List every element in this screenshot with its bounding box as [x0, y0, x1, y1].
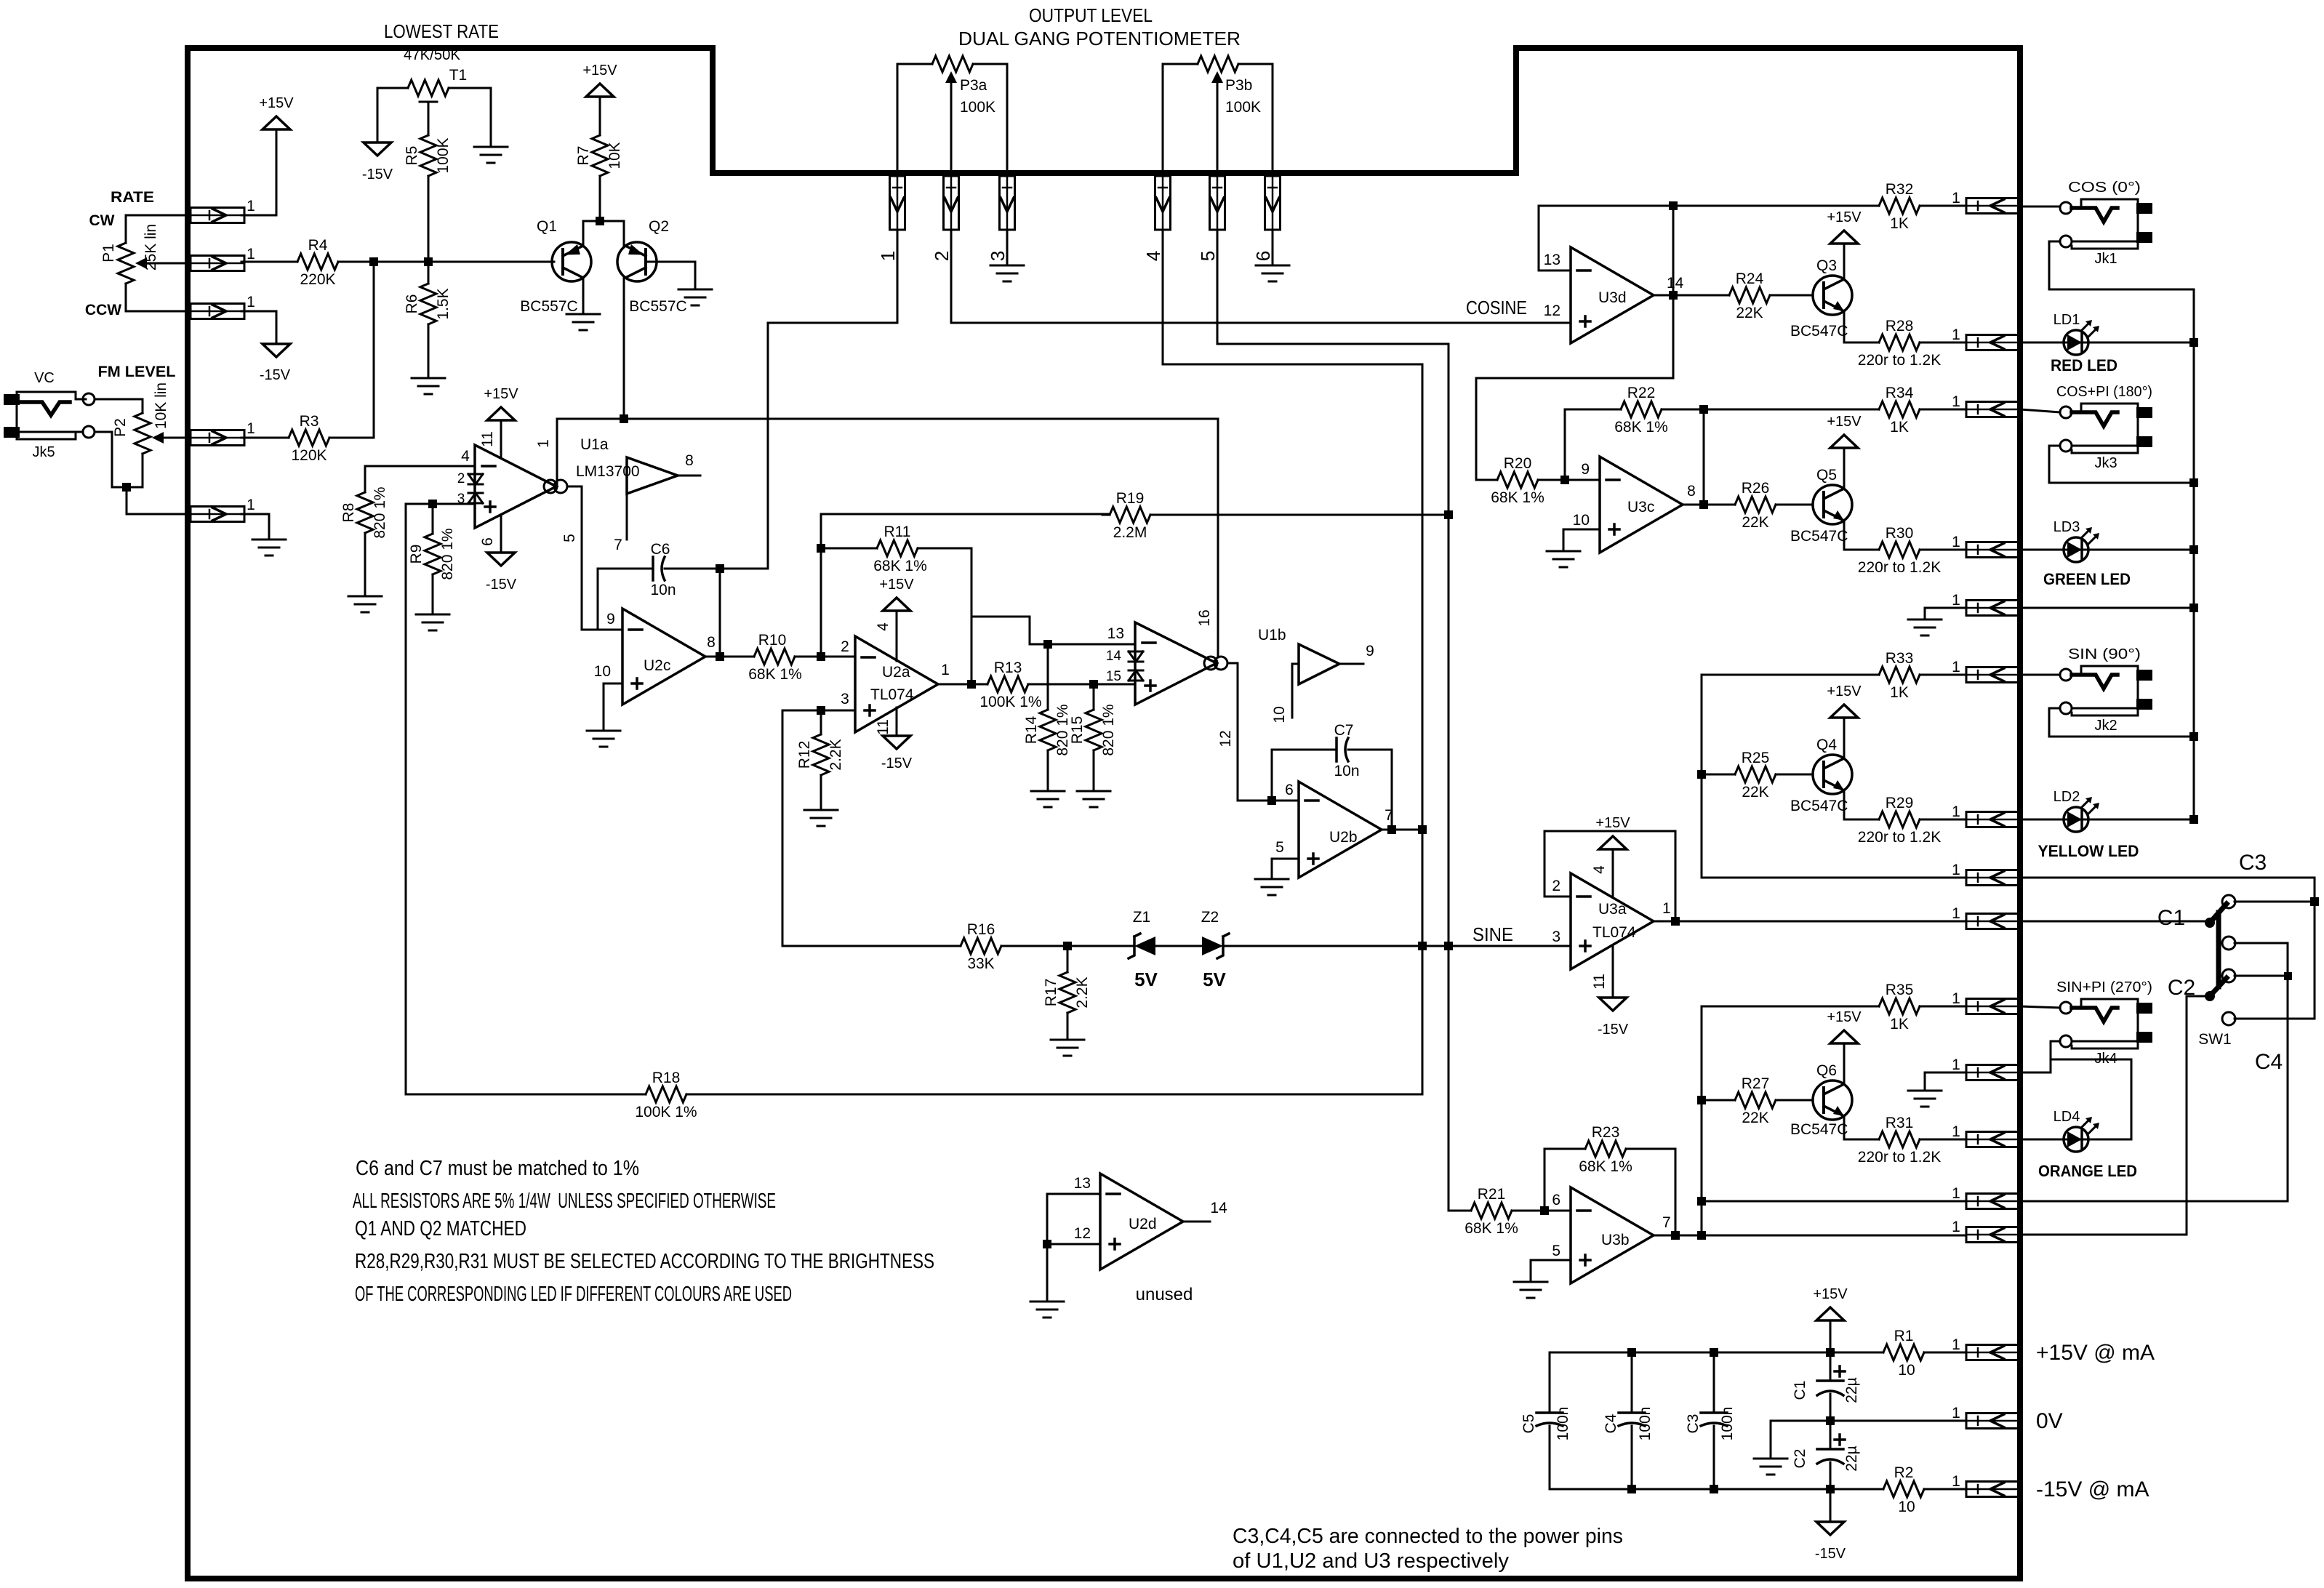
wire U1a pin3 to R18 (long vertical): [405, 504, 407, 1094]
svg-text:CW: CW: [89, 212, 115, 229]
connector (panel ground): [1966, 601, 2020, 616]
svg-text:SIN+PI (270°): SIN+PI (270°): [2056, 979, 2152, 995]
svg-text:68K 1%: 68K 1%: [1614, 419, 1668, 436]
resistor R21 68K 1%: [1464, 1203, 1519, 1219]
U2c output pin 8: [705, 656, 754, 658]
svg-text:2.2K: 2.2K: [1074, 977, 1091, 1008]
svg-text:LD4: LD4: [2053, 1109, 2080, 1125]
U1b buffer pins 9,10: [1299, 644, 1339, 684]
svg-text:1: 1: [247, 246, 255, 262]
switch SW1: [2222, 895, 2235, 908]
power +15V (rail): [1816, 1307, 1844, 1320]
svg-text:Q5: Q5: [1816, 467, 1837, 484]
capacitor C3 100n: [1701, 1411, 1727, 1414]
svg-text:COS+PI (180°): COS+PI (180°): [2056, 384, 2152, 400]
connector pin 1 (RATE CCW): [191, 304, 244, 319]
U2c pin 10 input: [604, 683, 622, 685]
trimmer T1: [401, 80, 456, 96]
svg-text:R12: R12: [796, 741, 813, 769]
wire C6 right to U2c output: [719, 569, 721, 657]
svg-text:6: 6: [1285, 782, 1294, 798]
svg-text:BC547C: BC547C: [1790, 323, 1848, 340]
svg-text:820 1%: 820 1%: [372, 486, 388, 538]
svg-text:U2a: U2a: [882, 664, 910, 681]
power -15V (T1): [364, 143, 391, 156]
svg-text:3: 3: [987, 251, 1009, 261]
svg-text:1: 1: [941, 662, 950, 678]
wire Jk3 sleeve to bus: [2049, 446, 2194, 483]
svg-text:R19: R19: [1116, 490, 1145, 507]
wire R3 to R4 node: [373, 262, 375, 438]
wire Jk1 sleeve to bus: [2049, 241, 2194, 289]
wire Q6 collector to +15V: [1843, 1043, 1846, 1084]
svg-text:P2: P2: [112, 418, 129, 437]
svg-text:5V: 5V: [1134, 969, 1158, 990]
svg-text:1: 1: [1952, 803, 1960, 820]
resistor R31 220r to 1.2K: [1872, 1131, 1927, 1147]
svg-text:YELLOW LED: YELLOW LED: [2038, 842, 2139, 860]
op-amp U2c: [622, 609, 705, 705]
svg-text:SIN (90°): SIN (90°): [2068, 646, 2141, 662]
svg-text:6: 6: [479, 537, 496, 546]
op-amp U3c: [1600, 457, 1683, 553]
svg-text:Q6: Q6: [1816, 1062, 1837, 1079]
op-amp U3d: [1571, 247, 1654, 343]
connector pin 6 (output level): [1265, 176, 1281, 230]
LED LD4 (orange): [2064, 1127, 2088, 1152]
op-amp U2b: [1299, 782, 1382, 878]
svg-text:5: 5: [1552, 1243, 1560, 1259]
wire U3d out down to R20 (cosine feedback): [1476, 295, 1673, 480]
svg-text:9: 9: [1581, 461, 1590, 478]
resistor R23 68K 1%: [1578, 1141, 1633, 1157]
U1a buffer pins 7,8: [627, 457, 678, 494]
resistor R15 820 1%: [1086, 702, 1102, 758]
svg-text:R2: R2: [1894, 1464, 1914, 1481]
svg-text:R11: R11: [884, 524, 911, 540]
svg-text:25K lin: 25K lin: [143, 224, 159, 270]
svg-text:LOWEST RATE: LOWEST RATE: [384, 20, 499, 42]
ground (0V): [1754, 1459, 1787, 1475]
svg-text:1: 1: [1952, 862, 1960, 878]
svg-text:LD1: LD1: [2053, 312, 2080, 328]
svg-text:1: 1: [877, 251, 899, 261]
svg-text:R10: R10: [758, 632, 787, 649]
connector (COS+PI out): [1966, 402, 2020, 417]
jack Jk3 COS+PI: [2060, 406, 2072, 418]
connector pin 1 (output level): [890, 176, 905, 230]
svg-text:1: 1: [247, 497, 255, 513]
svg-text:+15V: +15V: [1827, 209, 1862, 225]
svg-text:C3: C3: [2239, 851, 2267, 875]
svg-text:1: 1: [1952, 1123, 1960, 1140]
svg-text:of U1,U2 and U3 respectively: of U1,U2 and U3 respectively: [1233, 1549, 1510, 1573]
svg-text:SW1: SW1: [2198, 1031, 2232, 1048]
jack Jk1 COS: [2060, 202, 2072, 214]
resistor R14 820 1%: [1040, 702, 1056, 758]
svg-text:2.2M: 2.2M: [1113, 524, 1147, 541]
wire 0V rail: [1771, 1420, 1966, 1422]
svg-text:68K 1%: 68K 1%: [873, 558, 927, 574]
svg-text:47K/50K: 47K/50K: [404, 47, 460, 63]
svg-text:1: 1: [1662, 900, 1671, 917]
potentiometer P3b: [1190, 56, 1246, 72]
svg-text:4: 4: [875, 622, 891, 631]
svg-text:FM LEVEL: FM LEVEL: [98, 364, 176, 380]
svg-text:BC547C: BC547C: [1790, 1121, 1848, 1138]
svg-text:LM13700: LM13700: [576, 463, 640, 480]
wire LD4 to Jk4 sleeve: [2051, 1059, 2131, 1139]
svg-text:R22: R22: [1627, 385, 1656, 401]
U2d pin 13 input: [1047, 1193, 1100, 1195]
svg-text:4: 4: [461, 448, 470, 465]
svg-text:C1: C1: [1792, 1381, 1808, 1400]
op-amp U3b: [1571, 1187, 1654, 1283]
svg-text:-15V: -15V: [1598, 1022, 1629, 1038]
svg-text:-15V: -15V: [260, 367, 291, 383]
svg-text:1: 1: [1952, 1336, 1960, 1353]
svg-text:1: 1: [1952, 190, 1960, 206]
potentiometer P1: [118, 236, 134, 291]
wire pin2 COSINE net: [951, 230, 1571, 323]
svg-text:2.2K: 2.2K: [828, 739, 844, 770]
power +15V (R7): [586, 84, 614, 97]
svg-text:1: 1: [247, 420, 255, 437]
svg-text:OF THE CORRESPONDING LED IF DI: OF THE CORRESPONDING LED IF DIFFERENT CO…: [355, 1283, 792, 1306]
svg-text:U2c: U2c: [644, 657, 670, 674]
wire U2a out to U1b pin13: [971, 617, 1135, 644]
svg-text:8: 8: [1687, 483, 1696, 500]
svg-text:Jk1: Jk1: [2094, 251, 2117, 267]
ground (U2d): [1030, 1302, 1064, 1318]
svg-text:10K lin: 10K lin: [153, 382, 169, 429]
resistor R10 68K 1%: [747, 649, 802, 665]
power -15V (RATE): [263, 344, 290, 357]
svg-text:C1: C1: [2157, 906, 2185, 930]
svg-text:1: 1: [1952, 326, 1960, 343]
svg-text:RATE: RATE: [111, 189, 154, 206]
connector (0V): [1966, 1413, 2020, 1429]
svg-text:R16: R16: [967, 921, 995, 938]
svg-text:68K 1%: 68K 1%: [1579, 1158, 1632, 1175]
connector (LD2): [1966, 812, 2020, 827]
wire Q3 collector to +15V: [1843, 244, 1846, 279]
ground (panel right): [1908, 619, 1942, 635]
svg-text:5: 5: [1275, 839, 1284, 856]
svg-text:R31: R31: [1886, 1115, 1914, 1131]
ground (R12): [804, 810, 838, 826]
svg-text:R25: R25: [1742, 750, 1770, 766]
svg-text:68K 1%: 68K 1%: [748, 666, 802, 683]
svg-text:220r to 1.2K: 220r to 1.2K: [1858, 1149, 1941, 1166]
connector (LD4): [1966, 1132, 2020, 1147]
svg-text:4: 4: [1142, 251, 1164, 261]
wire -15V rail: [1550, 1488, 1879, 1491]
svg-text:22K: 22K: [1742, 1110, 1768, 1126]
svg-text:R13: R13: [994, 659, 1022, 676]
svg-text:7: 7: [1385, 807, 1393, 824]
svg-text:10n: 10n: [650, 582, 676, 598]
resistor R6 1.5K: [420, 276, 436, 332]
LED LD3 (green): [2064, 537, 2088, 562]
svg-text:Q1 AND Q2 MATCHED: Q1 AND Q2 MATCHED: [355, 1217, 526, 1240]
U3d feedback wire: [1539, 206, 1673, 270]
svg-text:+15V: +15V: [259, 95, 294, 111]
svg-text:10n: 10n: [1334, 763, 1359, 779]
svg-text:ALL RESISTORS ARE 5% 1/4W UNL: ALL RESISTORS ARE 5% 1/4W UNLESS SPECIFI…: [353, 1190, 776, 1213]
wire connector to ground: [1925, 1072, 1966, 1089]
wire emitter bus: [583, 220, 624, 222]
resistor R5 100K: [420, 128, 436, 183]
svg-text:-15V: -15V: [1815, 1546, 1846, 1562]
ground (U2c pin10): [587, 731, 620, 747]
svg-text:-15V @ mA: -15V @ mA: [2036, 1477, 2149, 1501]
ground (U3c): [1547, 551, 1580, 567]
resistor R22 68K 1%: [1614, 401, 1669, 417]
LED LD1 (red): [2064, 330, 2088, 355]
potentiometer P3a: [925, 56, 980, 72]
svg-text:1K: 1K: [1890, 215, 1909, 232]
svg-text:C3: C3: [1685, 1414, 1702, 1434]
svg-text:22µ: 22µ: [1843, 1377, 1860, 1403]
svg-text:33K: 33K: [967, 955, 994, 972]
ground (pin 6): [1272, 230, 1274, 265]
svg-text:OUTPUT LEVEL: OUTPUT LEVEL: [1029, 4, 1153, 26]
svg-text:R28,R29,R30,R31 MUST BE SELECT: R28,R29,R30,R31 MUST BE SELECTED ACCORDI…: [355, 1250, 934, 1273]
resistor R34 1K: [1872, 401, 1927, 417]
ground (Q1): [566, 314, 600, 330]
wire border to Jk1 tip: [2020, 206, 2060, 208]
U3c pin 10 input: [1563, 529, 1600, 531]
svg-text:1.5K: 1.5K: [435, 288, 452, 319]
ground (R9): [416, 614, 449, 630]
resistor R3 120K: [281, 430, 337, 446]
svg-text:R15: R15: [1069, 716, 1086, 745]
connector (LD1): [1966, 335, 2020, 350]
wire Q3 emitter: [1844, 311, 1879, 342]
svg-text:2: 2: [841, 638, 849, 655]
ground (R17): [1051, 1040, 1084, 1056]
svg-text:12: 12: [1074, 1225, 1091, 1242]
svg-text:Z2: Z2: [1201, 909, 1219, 926]
svg-text:R18: R18: [652, 1070, 681, 1086]
power +15V (Q5): [1830, 435, 1858, 448]
svg-text:R30: R30: [1886, 525, 1914, 542]
svg-text:unused: unused: [1136, 1285, 1193, 1304]
ground (R14): [1031, 791, 1065, 807]
svg-text:+15V: +15V: [879, 577, 914, 593]
svg-text:1: 1: [1952, 659, 1960, 675]
svg-text:U3c: U3c: [1627, 499, 1654, 516]
U2d output pin 14: [1183, 1221, 1210, 1223]
op-amp U2a TL074: [855, 636, 938, 732]
svg-text:220r to 1.2K: 220r to 1.2K: [1858, 352, 1941, 369]
wire C3 upper contact: [2235, 901, 2315, 903]
svg-text:BC557C: BC557C: [520, 298, 577, 315]
svg-text:R24: R24: [1736, 270, 1764, 287]
op-amp U1a LM13700 (OTA): [475, 445, 556, 528]
svg-text:1: 1: [1952, 393, 1960, 410]
wire Q5 collector to +15V: [1843, 448, 1846, 489]
svg-text:5V: 5V: [1203, 969, 1226, 990]
svg-text:+15V: +15V: [484, 386, 518, 402]
transistor Q6 BC547C: [1813, 1080, 1852, 1120]
svg-text:10: 10: [1898, 1499, 1915, 1515]
ground (Q2 base): [678, 289, 712, 305]
svg-text:C2: C2: [1792, 1449, 1808, 1469]
transistor Q2 BC557C: [617, 242, 657, 281]
svg-text:9: 9: [1366, 643, 1374, 659]
U1a output pin 5: [567, 486, 582, 630]
svg-text:13: 13: [1107, 625, 1124, 642]
svg-text:Jk3: Jk3: [2094, 455, 2117, 471]
transistor Q3 BC547C: [1813, 276, 1852, 315]
svg-text:11: 11: [479, 431, 496, 447]
U2a pin 11 V-: [896, 707, 898, 736]
svg-text:12: 12: [1217, 730, 1234, 747]
wire Q4 emitter: [1844, 790, 1879, 819]
wire U2a pin3 to R16: [782, 710, 784, 946]
connector pin 5 (output level): [1210, 176, 1225, 230]
wire C6 to U2c pin9: [598, 569, 622, 630]
svg-text:P1: P1: [100, 244, 117, 262]
svg-text:R34: R34: [1886, 385, 1914, 401]
connector (LD3): [1966, 542, 2020, 558]
svg-text:11: 11: [875, 719, 891, 735]
svg-text:13: 13: [1074, 1175, 1091, 1192]
power +15V (Q3): [1830, 230, 1858, 244]
svg-text:R14: R14: [1023, 715, 1040, 744]
svg-text:100K 1%: 100K 1%: [635, 1104, 697, 1120]
U2b pin 5 input: [1272, 858, 1299, 860]
svg-text:R3: R3: [300, 413, 319, 430]
U3d pin 13 input: [1539, 270, 1571, 272]
U3d output pin 14: [1654, 294, 1729, 297]
svg-text:+15V: +15V: [1827, 1009, 1862, 1025]
svg-text:C6 and C7 must be matched to 1: C6 and C7 must be matched to 1%: [356, 1157, 639, 1180]
svg-text:ORANGE LED: ORANGE LED: [2038, 1162, 2137, 1180]
svg-text:Q2: Q2: [649, 218, 669, 235]
jack Jk2 SIN: [2060, 669, 2072, 681]
svg-text:1: 1: [1952, 534, 1960, 550]
resistor R2 10: [1876, 1481, 1931, 1497]
svg-text:Q1: Q1: [537, 218, 557, 235]
resistor R33 1K: [1872, 667, 1927, 683]
connector pin 3 (output level): [1000, 176, 1015, 230]
wire 0V to ground: [1770, 1421, 1772, 1457]
U3a pin 11 V-: [1612, 945, 1614, 998]
svg-text:14: 14: [1210, 1200, 1227, 1216]
wire +15V rail: [1550, 1352, 1879, 1354]
svg-text:100K: 100K: [435, 137, 452, 173]
svg-text:22K: 22K: [1742, 514, 1768, 531]
svg-text:LD3: LD3: [2053, 519, 2080, 535]
svg-text:Q3: Q3: [1816, 257, 1837, 274]
svg-text:6: 6: [1252, 251, 1274, 261]
power +15V (U1a): [487, 407, 515, 420]
U2c pin 9 input: [582, 629, 622, 631]
resistor R29 220r to 1.2K: [1872, 811, 1927, 827]
U1a pin 3 input: [406, 503, 475, 505]
svg-text:4: 4: [1591, 865, 1608, 874]
connector pin 1 (panel ground): [191, 507, 244, 522]
svg-text:1: 1: [1952, 1473, 1960, 1490]
U3a pin 4 V+: [1612, 849, 1614, 897]
svg-text:R8: R8: [340, 503, 357, 523]
svg-text:TL074: TL074: [1592, 924, 1636, 941]
svg-text:R27: R27: [1742, 1075, 1770, 1092]
svg-text:-15V: -15V: [362, 167, 393, 183]
svg-text:U2b: U2b: [1329, 829, 1358, 846]
ground (U2b pin5): [1255, 879, 1289, 895]
resistor R12 2.2K: [813, 727, 829, 782]
wire pin4 to sine node: [1163, 230, 1422, 1094]
svg-text:100K: 100K: [960, 99, 995, 116]
svg-text:U1a: U1a: [580, 436, 609, 453]
wire CW to +15V: [241, 129, 276, 215]
svg-text:1: 1: [1952, 1219, 1960, 1235]
op-amp U3a TL074: [1571, 873, 1654, 969]
resistor R24 22K: [1722, 287, 1777, 303]
resistor R16 33K: [953, 938, 1009, 954]
connector (SIN+PI out): [1966, 999, 2020, 1014]
svg-text:R20: R20: [1504, 455, 1532, 472]
connector pin 1 (RATE wiper): [191, 256, 244, 271]
resistor R25 22K: [1728, 766, 1783, 782]
svg-text:1K: 1K: [1890, 1016, 1909, 1032]
svg-text:1: 1: [535, 439, 552, 448]
svg-text:22K: 22K: [1736, 305, 1763, 321]
resistor R35 1K: [1872, 998, 1927, 1014]
transistor Q5 BC547C: [1813, 485, 1852, 524]
svg-text:C3,C4,C5 are connected to the: C3,C4,C5 are connected to the power pins: [1233, 1525, 1623, 1548]
wire connector to Jk4 sleeve: [2020, 1041, 2060, 1072]
wire R35 node down (to U3b out): [1701, 1006, 1703, 1235]
U1a pin 11 V+: [500, 420, 502, 458]
svg-text:1: 1: [1952, 592, 1960, 609]
U2a pin 3 input: [782, 710, 855, 712]
svg-text:R33: R33: [1886, 650, 1914, 667]
svg-text:2: 2: [457, 471, 465, 486]
svg-text:100K 1%: 100K 1%: [979, 694, 1041, 710]
resistor R18 100K 1%: [638, 1086, 694, 1102]
svg-text:7: 7: [614, 537, 622, 553]
resistor R26 22K: [1728, 497, 1783, 513]
svg-text:VC: VC: [34, 370, 55, 386]
svg-text:1: 1: [1952, 1405, 1960, 1421]
svg-text:SINE: SINE: [1472, 923, 1513, 945]
U3b output pin 7: [1654, 1235, 1966, 1237]
resistor R13 100K 1%: [980, 676, 1035, 692]
power +15V (Q4): [1830, 705, 1858, 718]
svg-text:0V: 0V: [2036, 1409, 2063, 1433]
connector (+15V): [1966, 1345, 2020, 1360]
ground (Jk4): [1908, 1091, 1942, 1107]
svg-text:-15V: -15V: [881, 755, 913, 771]
ground (R8): [348, 596, 382, 612]
connector pin 4 (output level): [1155, 176, 1171, 230]
ground (T1): [474, 147, 508, 163]
svg-text:820 1%: 820 1%: [439, 528, 456, 580]
resistor R8 820 1%: [357, 485, 373, 540]
resistor R32 1K: [1872, 198, 1927, 214]
capacitor C7 10n: [1335, 738, 1338, 761]
svg-text:1: 1: [1952, 990, 1960, 1007]
svg-text:R35: R35: [1886, 982, 1914, 998]
wire connector to bus: [2020, 607, 2194, 609]
wire C4 connector to node: [1702, 1200, 1966, 1203]
svg-text:C2: C2: [2168, 976, 2195, 1000]
